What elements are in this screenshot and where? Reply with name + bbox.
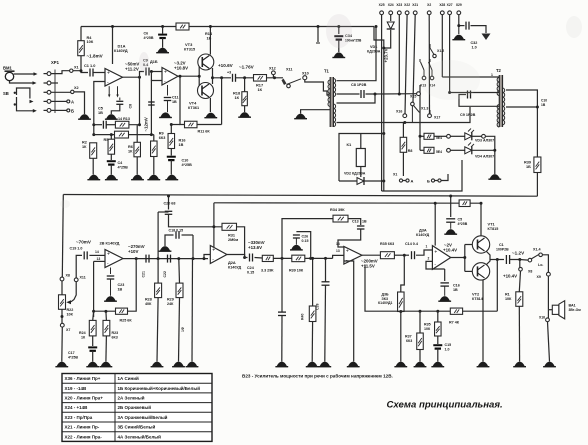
capacitor C13: [227, 71, 236, 82]
resistor R12: [115, 131, 129, 138]
wire feed to R26: [419, 135, 425, 138]
resistor R24: [79, 320, 96, 339]
resistor R25: [116, 308, 133, 322]
led VD4: [465, 143, 494, 159]
label T2 type: [460, 99, 547, 118]
svg-text:R11 6К: R11 6К: [198, 130, 211, 134]
svg-text:Х21 - Линия Пр-: Х21 - Линия Пр-: [65, 425, 100, 430]
wire VD2 rail: [339, 180, 385, 183]
wire VD1 down: [382, 30, 390, 50]
wire pin X25 down: [381, 15, 383, 191]
capacitor C23: [107, 268, 125, 296]
wire R12 right: [129, 81, 153, 137]
resistor R27: [424, 147, 442, 154]
svg-text:Х7: Х7: [66, 328, 70, 332]
wire X11 up to C19: [76, 255, 82, 278]
wire VT3-VT4 node: [211, 68, 214, 84]
wire fb rail left: [365, 265, 450, 313]
resistor R2: [82, 141, 97, 159]
svg-text:Х16: Х16: [396, 110, 402, 114]
pin X2B: [482, 134, 486, 138]
resistor R35b: [424, 322, 441, 336]
ground under C7: [105, 114, 118, 119]
op-amp D3A: [432, 246, 450, 270]
wire R17 to X12: [267, 76, 284, 79]
svg-text:С19 1.0: С19 1.0: [70, 246, 83, 250]
svg-text:С18 0.15: С18 0.15: [169, 229, 184, 233]
ground bottom 14: [513, 362, 526, 367]
wire output node: [490, 258, 504, 261]
svg-text:+: +: [212, 247, 215, 253]
label D2A: [228, 260, 242, 269]
svg-text:2А Зеленый: 2А Зеленый: [118, 395, 145, 401]
svg-text:С1 1.0: С1 1.0: [84, 63, 95, 68]
wire C19 to D2B: [89, 250, 105, 256]
svg-text:Х20 - Линия Пра+: Х20 - Линия Пра+: [65, 396, 104, 401]
ground LED rail: [488, 174, 501, 179]
capacitor C16: [440, 269, 459, 296]
capacitor C27 shunt: [316, 258, 330, 310]
connector pinout table: [62, 374, 212, 442]
svg-text:С8: С8: [129, 104, 133, 109]
wire pin X2b down: [428, 15, 430, 114]
svg-text:3А Оранжевый/Белый: 3А Оранжевый/Белый: [118, 414, 168, 420]
wire R12 rail: [94, 134, 115, 136]
svg-text:~1.2V: ~1.2V: [512, 251, 525, 256]
op-amp D1B: [162, 68, 178, 86]
wire R9 top: [151, 135, 153, 141]
svg-text:Д2А: Д2А: [228, 260, 236, 265]
capacitor C13b: [352, 220, 367, 230]
svg-text:R8: R8: [408, 149, 413, 153]
svg-text:R39 10К: R39 10К: [289, 269, 304, 273]
capacitor C14: [405, 242, 419, 259]
resistor R4: [78, 35, 94, 56]
svg-text:ВМ1: ВМ1: [3, 66, 13, 71]
wire into speaker: [548, 309, 552, 311]
wire X27 to loop: [448, 91, 472, 94]
capacitor C15 electrolytic: [433, 343, 451, 351]
scan noise: [60, 14, 582, 208]
wire VT1 collector: [480, 202, 483, 236]
svg-text:Х19 - -14В: Х19 - -14В: [65, 386, 88, 391]
wire T2 sec top: [506, 90, 537, 157]
capacitor C32: [459, 22, 477, 50]
wire R25 to inv: [92, 310, 115, 313]
svg-text:Х11: Х11: [80, 276, 86, 280]
svg-text:2: 2: [428, 257, 430, 261]
wire T1 tap1: [337, 25, 378, 81]
resistor R7 relay: [400, 137, 412, 153]
resistor R36: [378, 292, 404, 312]
svg-text:Х22 - Линия Пра-: Х22 - Линия Пра-: [65, 434, 103, 439]
svg-text:Х25: Х25: [379, 3, 385, 7]
svg-text:10К: 10К: [424, 327, 431, 331]
svg-text:4*25В: 4*25В: [458, 222, 468, 226]
wire D2B inv down: [93, 261, 95, 317]
wire supply rail A: [63, 195, 537, 197]
microphone BM1: [3, 66, 15, 81]
wire switch to speaker line: [542, 255, 548, 272]
wire R16 junction: [171, 124, 180, 126]
wire D1A inv input rail: [92, 82, 105, 137]
op-amp D2B: [105, 250, 123, 268]
led VD3: [465, 129, 494, 143]
resistor R40 chain: [301, 257, 316, 362]
connector XP1 pin 5: [44, 109, 51, 113]
ground under C6: [156, 48, 169, 53]
label Gn: [538, 263, 543, 267]
svg-text:1В: 1В: [179, 143, 184, 147]
svg-text:+10.8V: +10.8V: [174, 66, 188, 71]
svg-text:1В: 1В: [541, 103, 546, 107]
svg-text:Х22: Х22: [404, 3, 410, 7]
label D2B levels: [128, 244, 145, 254]
transistor VT4: [198, 83, 214, 99]
potentiometer R22: [59, 295, 74, 317]
svg-text:Х24: Х24: [388, 3, 394, 7]
ground bottom 11: [477, 362, 490, 367]
title: [387, 400, 503, 411]
wire rail bend to bus: [374, 27, 384, 101]
svg-text:VT2: VT2: [472, 292, 480, 297]
svg-text:4*25В: 4*25В: [182, 163, 193, 167]
label -1.76V: [239, 65, 255, 70]
wire R13node to R6: [137, 123, 141, 142]
wire R26 to pin: [434, 135, 447, 137]
wire XP1 pin1 to X1: [51, 71, 70, 74]
wire C27 ground: [324, 285, 327, 361]
resistor R39b: [289, 255, 305, 272]
ground under C10: [165, 175, 178, 180]
wire T2 tap loop: [459, 91, 499, 107]
wire pin X28 down: [441, 15, 443, 77]
wire VT4 down: [209, 98, 211, 112]
switch X13: [420, 59, 426, 80]
link B: [427, 174, 448, 184]
T1 primary winding: [328, 80, 330, 106]
wire fb rail: [463, 310, 498, 312]
ground under X2 line: [78, 114, 91, 119]
svg-text:1А Синий: 1А Синий: [118, 375, 140, 381]
wire R13 right up: [129, 77, 140, 125]
label D1B levels: [174, 61, 188, 71]
wire fbwire to R23: [104, 310, 107, 321]
svg-text:1.0: 1.0: [445, 347, 450, 351]
svg-text:В23 - Усилитель мощности при р: В23 - Усилитель мощности при речи с рабо…: [242, 373, 393, 379]
wire mic to arrows: [10, 74, 35, 83]
wire bias left: [157, 212, 169, 260]
svg-text:К140УД: К140УД: [114, 49, 128, 53]
ground bottom 6: [186, 362, 199, 367]
wire D3B out: [362, 254, 380, 256]
wire X9 down: [547, 276, 549, 310]
wire C28 chain: [278, 258, 286, 315]
wire supply rail B: [214, 202, 481, 204]
svg-text:Х10: Х10: [302, 72, 309, 76]
svg-text:VT3: VT3: [185, 42, 193, 47]
pin X9: [537, 272, 551, 279]
svg-text:R7 4К: R7 4К: [449, 321, 460, 325]
wire D3B lower input: [344, 261, 354, 362]
svg-text:VT4: VT4: [189, 101, 197, 106]
svg-text:А: А: [411, 179, 414, 184]
ground under C34: [332, 52, 345, 57]
svg-text:+: +: [434, 249, 437, 255]
capacitor C10 electrolytic: [167, 149, 192, 167]
resistor R1out: [505, 292, 523, 307]
svg-text:4*25В: 4*25В: [144, 36, 154, 40]
wire inv to R24: [92, 311, 95, 320]
resistor R34: [330, 208, 348, 222]
wire R34 to C13b: [348, 219, 361, 225]
header pin Х2: [427, 3, 431, 15]
svg-text:1: 1: [491, 73, 493, 77]
svg-text:R5: R5: [104, 138, 109, 142]
resistor R11: [185, 121, 211, 133]
svg-text:КТ315: КТ315: [184, 48, 195, 52]
svg-text:+10.4V: +10.4V: [443, 248, 457, 253]
svg-text:Д1Б: Д1Б: [150, 60, 158, 64]
ground bottom 10: [394, 362, 407, 367]
svg-text:Х16: Х16: [539, 316, 545, 320]
svg-text:4А Зеленый/Белый: 4А Зеленый/Белый: [118, 433, 162, 439]
wire pin X27 down: [449, 15, 451, 93]
svg-text:1В: 1В: [453, 288, 458, 292]
svg-text:10К: 10К: [87, 39, 94, 44]
wire top rail: [81, 26, 374, 28]
wire signal to pin13: [333, 249, 344, 258]
capacitor C6 electrolytic: [144, 25, 168, 48]
svg-text:Д3А: Д3А: [419, 228, 427, 233]
arrow jack B: [33, 109, 37, 113]
svg-text:VD3 АЛ307: VD3 АЛ307: [475, 139, 494, 143]
wire XP1 pin5 to B: [51, 108, 74, 113]
wire bases: [463, 245, 472, 272]
capacitor C19: [70, 246, 88, 259]
svg-text:+: +: [107, 70, 110, 76]
wire C1 to switch: [510, 258, 528, 261]
wire C18 node down: [191, 259, 194, 362]
resistor R13: [115, 117, 130, 128]
wire C4 ground: [110, 165, 112, 175]
wire relay coil bottom: [360, 167, 362, 178]
svg-text:С21: С21: [142, 271, 146, 277]
wire T1 tap2 loop: [337, 90, 376, 103]
svg-text:13: 13: [336, 249, 340, 253]
op-amp D2A: [210, 246, 227, 264]
svg-text:13: 13: [97, 257, 101, 261]
wire D3A pin2: [426, 257, 445, 270]
label T1 type: [351, 83, 367, 87]
svg-text:Х9: Х9: [537, 275, 541, 279]
svg-text:5Е4: 5Е4: [436, 150, 442, 154]
pin X2A: [447, 134, 451, 138]
svg-text:10К: 10К: [505, 297, 512, 301]
svg-text:КТ814: КТ814: [472, 297, 484, 301]
wire rail B corner: [212, 203, 215, 248]
svg-text:1Б Коричневый+Коричневый/Белы: 1Б Коричневый+Коричневый/Белый: [118, 385, 201, 391]
label VT1: [488, 222, 499, 231]
svg-text:Х21: Х21: [412, 3, 418, 7]
wire C32 right to chassis: [471, 26, 487, 33]
node X1: [70, 66, 79, 73]
switch X1.2: [430, 44, 444, 58]
note B23: [242, 373, 393, 379]
op-amp D1A pin arrows: [108, 86, 119, 97]
svg-text:Х12: Х12: [269, 67, 276, 71]
node X10: [302, 72, 309, 80]
wire relay block bottom: [382, 160, 462, 191]
wire R1out ground: [518, 306, 520, 361]
ground bottom 4: [151, 362, 164, 367]
resistor R26: [424, 133, 442, 140]
wire R16 top: [170, 125, 172, 134]
svg-text:R34 39К: R34 39К: [330, 208, 345, 212]
resistor R35: [380, 242, 394, 259]
wire R18 to ground: [244, 106, 246, 112]
wire out to C13: [213, 76, 232, 79]
wire X8 to pot: [61, 281, 63, 295]
label VT2: [472, 292, 484, 301]
wire T1 primary bottom: [301, 110, 331, 114]
svg-text:1К: 1К: [258, 87, 263, 92]
label D3B levels: [361, 259, 378, 269]
relay K1: [347, 142, 366, 167]
svg-text:КД209А: КД209А: [367, 50, 381, 54]
wire R35b: [437, 311, 439, 344]
header pin Х29: [456, 3, 462, 15]
capacitor C22: [163, 255, 171, 278]
ground T1 primary: [294, 114, 307, 119]
wire R12rail to R5: [110, 133, 113, 139]
label +10.6V: [218, 63, 234, 68]
capacitor on D1B inv column: [148, 102, 155, 105]
wire bottom taps bus: [405, 107, 470, 123]
wire D2B fb down: [127, 259, 136, 312]
svg-text:Х23: Х23: [396, 3, 402, 7]
resistor R7b: [449, 308, 463, 324]
link A: [393, 173, 414, 184]
T2 secondary winding: [503, 88, 505, 125]
header pin Х23: [396, 3, 402, 15]
wire X7 to ground: [61, 327, 64, 361]
resistor R28: [145, 283, 162, 306]
ground under VT4: [204, 113, 217, 118]
label D2B: [100, 241, 120, 246]
svg-text:К140УД: К140УД: [228, 265, 242, 269]
svg-text:Б: Б: [427, 179, 430, 184]
transistor VT2: [472, 263, 489, 280]
svg-text:~12mV: ~12mV: [144, 117, 149, 131]
svg-text:D1А: D1А: [118, 44, 126, 49]
svg-text:С14 0.4: С14 0.4: [405, 242, 419, 246]
resistor R18: [233, 91, 247, 106]
wire R39b right: [305, 257, 333, 260]
connector XP1 label: [51, 60, 60, 65]
svg-text:2Б Оранжевый: 2Б Оранжевый: [118, 404, 152, 410]
header pin Х27: [447, 3, 453, 15]
resistor R38 on rail B: [459, 200, 470, 207]
wire D2A out: [227, 255, 246, 260]
wire D3A V+ from rail: [434, 202, 437, 246]
svg-text:Х27: Х27: [447, 3, 453, 7]
resistor R39 on right leg: [524, 157, 541, 173]
wire C18 right down: [192, 235, 195, 260]
transformer T1 core: [324, 69, 334, 128]
svg-text:1К: 1К: [235, 95, 240, 100]
ground under C11: [159, 112, 172, 117]
svg-text:Х29: Х29: [456, 3, 462, 7]
svg-text:С20 68: С20 68: [164, 202, 176, 206]
wire R6 ground: [136, 157, 138, 175]
resistor R16: [168, 134, 185, 149]
wire R2 ground: [92, 158, 94, 174]
wire X2 down to ground: [74, 92, 85, 114]
T2 primary winding upper: [497, 78, 499, 96]
arrow jack A: [30, 100, 34, 104]
wire T2 pin1: [442, 73, 499, 77]
svg-text:Х1: Х1: [74, 66, 79, 70]
wire speaker to ground: [548, 322, 550, 362]
plug X11: [282, 68, 302, 88]
svg-text:~70mV: ~70mV: [76, 240, 92, 245]
wire X1 to C1: [73, 71, 88, 73]
svg-text:Х2: Х2: [74, 86, 79, 90]
wire T1 primary top: [305, 80, 330, 95]
capacitor C18: [165, 229, 193, 247]
svg-text:+11.2V: +11.2V: [125, 67, 139, 72]
wire R11 right: [197, 78, 222, 125]
wire emitters join: [486, 251, 490, 265]
wire pot down: [61, 309, 64, 323]
ground bottom 8: [275, 362, 288, 367]
svg-text:1К: 1К: [128, 149, 133, 153]
wire X13 feed down: [419, 85, 421, 150]
wire rail to R4: [80, 27, 82, 41]
wire rail drop to D1A: [111, 25, 114, 64]
T2 primary winding lower: [497, 105, 499, 128]
wire R1out top: [519, 260, 521, 268]
ground bottom 1: [55, 362, 68, 367]
svg-text:+: +: [346, 248, 349, 254]
node X2: [71, 86, 79, 94]
ground under R9: [147, 175, 160, 180]
svg-text:+11.5V: +11.5V: [361, 264, 375, 269]
transistor VT3: [198, 54, 214, 70]
wire XP1 pin2: [51, 82, 58, 84]
capacitor C26: [293, 232, 311, 259]
connector XP1 pin 2: [44, 81, 51, 85]
ground bottom 3: [100, 362, 113, 367]
capacitor C21: [142, 255, 150, 278]
wire D1B out to bases: [178, 65, 201, 92]
wire T1 tap3: [337, 121, 407, 124]
wire D2A plus input: [210, 247, 214, 249]
wire R9 ground: [153, 157, 155, 175]
svg-text:Т2: Т2: [496, 68, 502, 73]
svg-text:+10.6V: +10.6V: [218, 63, 234, 68]
resistor R29: [167, 283, 183, 306]
pin X8: [60, 274, 70, 281]
svg-text:14 R13: 14 R13: [118, 117, 130, 121]
svg-text:14: 14: [336, 242, 340, 246]
wire pin X29 down: [458, 15, 460, 26]
wire junction up rail: [282, 219, 333, 259]
wire C14 to D3A: [416, 245, 432, 256]
wire relay coil top: [360, 134, 362, 149]
capacitor C1out: [496, 243, 510, 264]
